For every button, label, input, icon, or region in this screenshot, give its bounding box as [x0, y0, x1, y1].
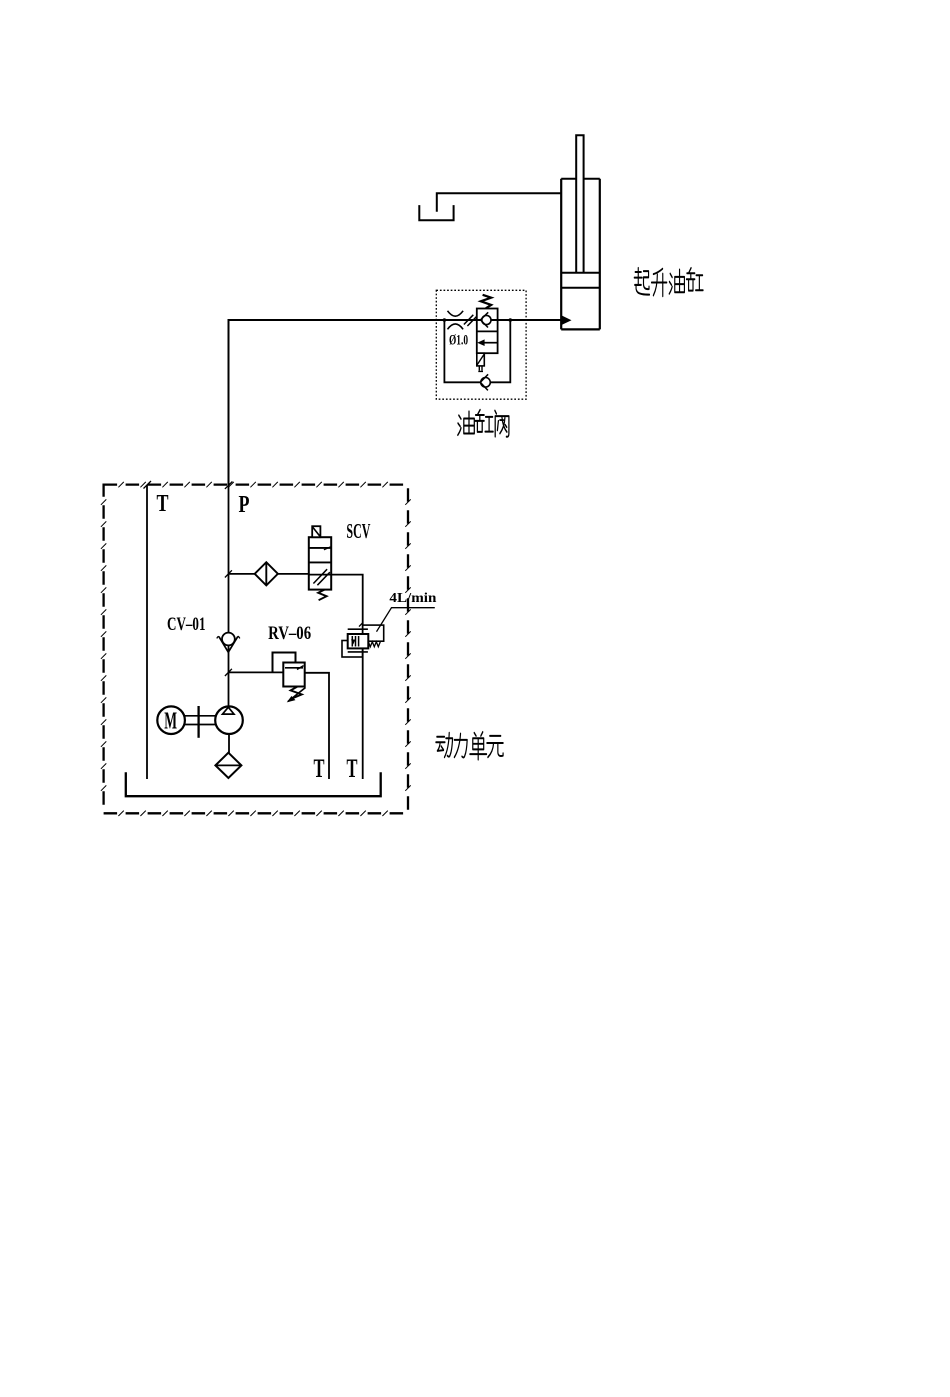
svg-text:M: M [164, 708, 177, 734]
svg-text:SCV: SCV [346, 519, 370, 543]
svg-text:P: P [239, 492, 250, 518]
svg-text:Ø1.0: Ø1.0 [449, 333, 468, 349]
svg-text:RV–06: RV–06 [268, 623, 311, 644]
svg-text:T: T [314, 754, 325, 783]
svg-text:4L/min: 4L/min [389, 591, 436, 606]
svg-text:CV–01: CV–01 [167, 614, 206, 635]
svg-text:T: T [347, 754, 358, 783]
svg-text:T: T [157, 491, 169, 517]
